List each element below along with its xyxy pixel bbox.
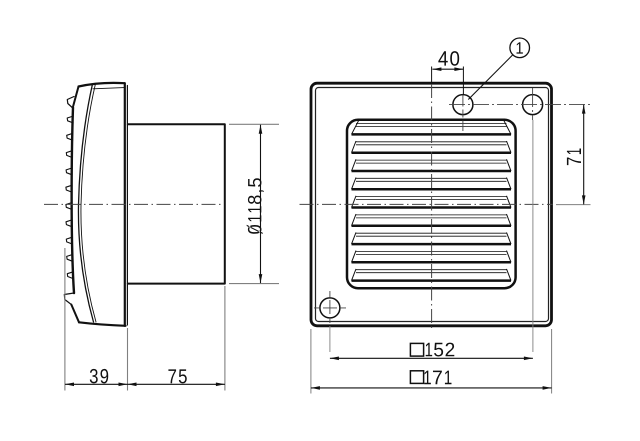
extension lines (gray) [65, 124, 279, 390]
cover bottom edge [79, 322, 126, 326]
hole centerline vertical top-right + ext 152 [532, 88, 534, 120]
hole centerline vertical top hole [462, 95, 464, 132]
cover top-left chamfer [73, 87, 79, 108]
inner frame line [316, 88, 549, 322]
cover top inner thin edge [93, 88, 124, 89]
side view centerline [44, 203, 224, 205]
grille top notch [67, 97, 74, 109]
dimension 40 [432, 51, 463, 71]
cover right edge [124, 83, 126, 326]
dimension box152 [330, 343, 533, 361]
slat 7 [352, 232, 512, 244]
slat 2 [352, 141, 512, 153]
louvre frame [347, 120, 516, 288]
dimension 39 [65, 369, 128, 386]
hole centerline bottom-left hole [314, 307, 346, 309]
front view vertical centerline [431, 67, 433, 84]
louvre slats [352, 121, 512, 281]
slat 8 [352, 251, 512, 263]
cover bottom-left chamfer [71, 305, 79, 323]
outer frame [311, 83, 552, 326]
screw hole bottom left [320, 298, 340, 318]
cover crease curve [78, 84, 93, 322]
front view horizontal centerline [300, 203, 553, 205]
screw hole top center [453, 95, 473, 115]
hole centerline horizontal top [449, 104, 591, 106]
screw hole top right [523, 95, 543, 115]
dimension 71 [567, 105, 586, 205]
ext lines 171 [310, 329, 312, 394]
ext line 39/75 middle [127, 328, 129, 391]
ext line 39 left [64, 248, 66, 391]
ext line duct top [229, 123, 279, 125]
ext line duct bottom [229, 283, 279, 285]
cover crease highlight curve [81, 85, 96, 323]
dimension dia 118,5 [247, 125, 264, 283]
ext line 40 right [462, 67, 464, 96]
grille teeth [66, 116, 73, 279]
slat 9 [352, 269, 512, 281]
dimension 75 [128, 369, 225, 386]
dimension box171 [311, 371, 552, 390]
slat 6 [352, 214, 512, 226]
slat 3 [352, 159, 512, 171]
ext line 75 right [224, 286, 226, 391]
slat 5 [352, 196, 512, 208]
duct [128, 124, 225, 283]
callout balloon 1 [468, 38, 529, 100]
ext line 71 bottom [556, 204, 591, 206]
slat 1 [352, 121, 512, 135]
mounting plate edge [126, 86, 128, 326]
cover outer curve [72, 108, 74, 294]
cover top edge [79, 83, 125, 87]
slat 4 [352, 178, 512, 190]
grille bottom notch [64, 293, 74, 305]
